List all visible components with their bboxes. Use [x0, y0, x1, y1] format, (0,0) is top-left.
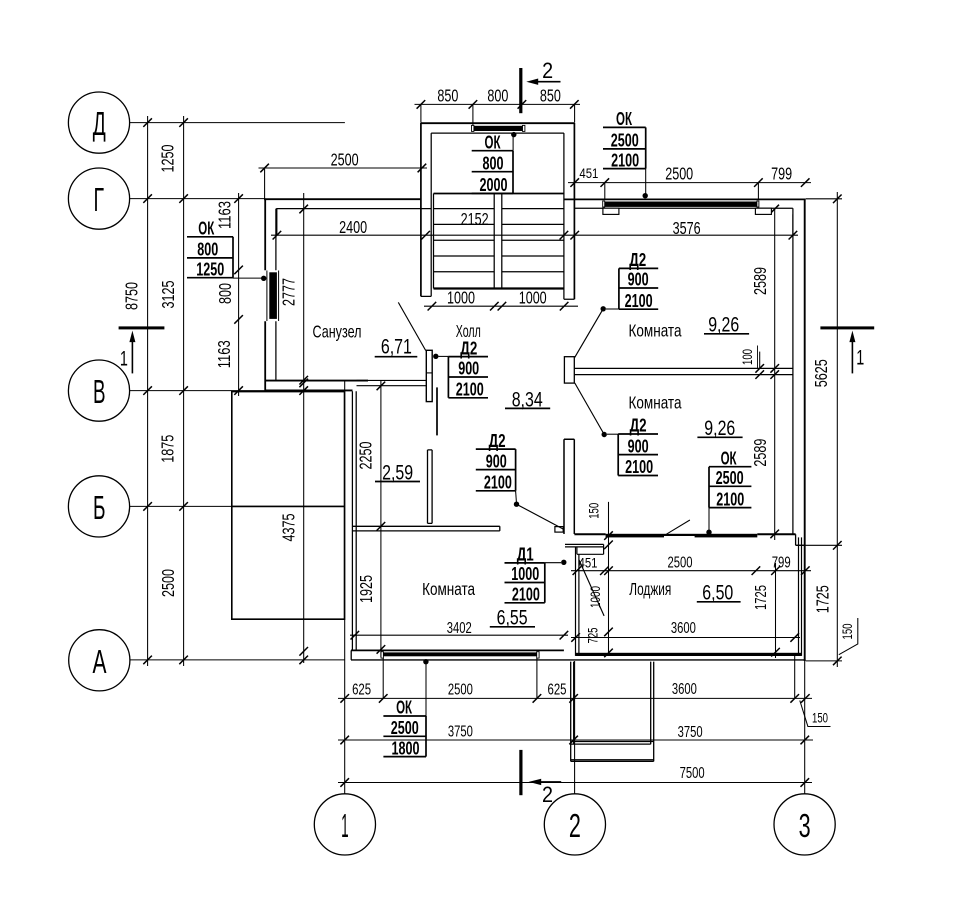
svg-text:Холл: Холл	[456, 321, 481, 341]
ticks top dims	[417, 100, 426, 109]
ticks bottom row 3	[340, 778, 349, 787]
section mark 1 right	[820, 326, 874, 373]
wall bottom room floor (axis А)	[351, 649, 564, 651]
area 9,26 room1	[704, 313, 749, 337]
svg-text:2500: 2500	[448, 682, 473, 699]
dimension chain 8750	[147, 116, 149, 666]
wall closet/room left	[352, 391, 356, 650]
svg-text:ОК: ОК	[616, 109, 633, 129]
svg-text:3600: 3600	[672, 681, 697, 698]
dimension chain 5625/1725 right	[836, 192, 838, 667]
axis circle 3	[774, 794, 835, 855]
svg-text:900: 900	[486, 451, 507, 471]
svg-text:Санузел: Санузел	[313, 321, 362, 341]
stair treads left flight	[434, 209, 495, 272]
svg-text:2: 2	[569, 807, 581, 844]
partition closet/room bottom	[352, 526, 499, 531]
ticks on axis lines	[143, 118, 152, 127]
loggia parapet right	[799, 537, 802, 656]
svg-text:3125: 3125	[158, 281, 178, 309]
svg-text:799: 799	[771, 164, 792, 184]
svg-text:150: 150	[812, 710, 828, 725]
svg-text:150: 150	[840, 624, 855, 640]
svg-text:850: 850	[540, 85, 561, 105]
svg-text:4375: 4375	[279, 514, 299, 542]
dim text 150 loggia right leader	[839, 618, 858, 655]
svg-text:ОК: ОК	[721, 448, 738, 468]
wall right outer (axis 3)	[804, 199, 806, 661]
svg-text:Д: Д	[93, 105, 106, 142]
svg-text:2589: 2589	[750, 267, 770, 295]
svg-text:1725: 1725	[753, 585, 770, 610]
axis circle Г	[68, 168, 129, 229]
tag ОК 800/2000 stair window	[472, 132, 517, 195]
loggia bottom wall	[576, 653, 802, 656]
axis line 2 vertical segments	[574, 104, 576, 793]
wall left wing top (axis Г)	[264, 198, 421, 200]
section mark 2 top	[519, 58, 560, 113]
partition rooms 1/2 (100mm)	[574, 368, 793, 374]
svg-text:1800: 1800	[392, 738, 420, 758]
svg-text:2250: 2250	[355, 441, 375, 469]
stair tower right wall	[573, 123, 575, 299]
svg-text:900: 900	[458, 359, 479, 379]
svg-text:3750: 3750	[678, 724, 703, 741]
stair bottom edge	[434, 287, 564, 289]
door swing room 2	[575, 383, 605, 435]
section mark 2 bottom	[519, 750, 561, 807]
dimension chain 2589/2589	[774, 209, 776, 540]
dimension line 100 partition	[759, 352, 761, 369]
extension lines top	[265, 104, 793, 235]
ticks loggia row	[573, 566, 582, 575]
dimension line 7500 bottom	[338, 782, 812, 784]
lower balcony outline	[571, 662, 654, 762]
axis line А	[130, 659, 345, 661]
svg-text:2: 2	[542, 782, 553, 807]
svg-text:150: 150	[586, 503, 601, 519]
dimension line 3750/3750 bottom	[338, 739, 813, 741]
dimension line 625/2500/625/3600 bottom	[338, 697, 812, 699]
svg-text:8750: 8750	[122, 282, 142, 310]
svg-text:2500: 2500	[158, 569, 178, 597]
stair treads right flight	[502, 209, 564, 272]
svg-text:1875: 1875	[158, 435, 178, 463]
dimension line 1000/1000 stairs	[424, 305, 578, 307]
svg-text:1: 1	[856, 346, 864, 369]
svg-text:Д2: Д2	[630, 416, 647, 436]
dimension chain 2777/4375	[303, 193, 305, 663]
svg-text:3402: 3402	[447, 620, 472, 637]
dimension line 3402	[350, 634, 568, 636]
svg-text:2500: 2500	[716, 468, 744, 488]
axis line 3 vertical	[804, 661, 806, 794]
wall right wing top (axis Г)	[564, 198, 806, 200]
svg-text:3: 3	[799, 807, 811, 844]
svg-text:800: 800	[197, 240, 218, 260]
window jamb niches top wall	[603, 208, 619, 214]
svg-text:2777: 2777	[279, 278, 299, 306]
tag ОК 800/1250 left window	[187, 219, 266, 281]
door swing bottom room	[517, 504, 564, 529]
svg-text:2100: 2100	[625, 291, 653, 311]
svg-text:800: 800	[215, 283, 235, 304]
area 6,55	[490, 606, 535, 630]
axis circle 2	[544, 794, 605, 855]
wall left wing outer left	[264, 198, 266, 391]
wall stub closet right	[428, 450, 433, 524]
svg-text:2100: 2100	[484, 473, 512, 493]
svg-text:2100: 2100	[456, 380, 484, 400]
svg-text:Д1: Д1	[517, 545, 534, 565]
ticks chain 2589	[770, 205, 779, 214]
extension lines bottom	[383, 656, 795, 699]
svg-text:1000: 1000	[447, 287, 475, 307]
ticks chain 1163/800/1163	[234, 266, 243, 275]
svg-text:2100: 2100	[512, 585, 540, 605]
wall stub hall	[436, 387, 438, 435]
svg-text:1925: 1925	[356, 575, 376, 603]
balcony door swing room2	[666, 520, 690, 534]
svg-text:451: 451	[579, 166, 598, 181]
loggia left jamb	[565, 544, 604, 554]
door leaf Санузел	[398, 302, 432, 401]
svg-text:2000: 2000	[480, 175, 508, 195]
dimension line 2500 top-left	[259, 167, 428, 169]
axis line Г	[130, 198, 265, 200]
svg-text:850: 850	[437, 85, 458, 105]
stair stringers	[434, 194, 502, 289]
ticks 1725 loggia	[771, 566, 780, 575]
svg-text:2100: 2100	[611, 150, 639, 170]
loggia parapet left	[576, 547, 579, 656]
ticks dim 100	[755, 364, 764, 373]
svg-text:2100: 2100	[716, 489, 744, 509]
dimension chain 1163/800/1163	[238, 193, 240, 396]
svg-text:ОК: ОК	[198, 219, 215, 239]
ticks chain 5625/1725	[833, 195, 842, 204]
dimension chain 1250/3125/1875/2500	[183, 116, 185, 666]
svg-text:В: В	[93, 373, 106, 410]
window ОК 2500x2100 top	[603, 201, 759, 207]
svg-text:900: 900	[628, 270, 649, 290]
door threshold Д2 hall	[357, 380, 427, 385]
extension lines right chain	[796, 199, 842, 661]
svg-text:Д2: Д2	[489, 431, 506, 451]
area 6,50	[697, 581, 741, 605]
underline 100	[757, 346, 759, 369]
loggia top wall / window ОК 2500x2100	[574, 534, 805, 546]
wall Санузел bottom (thick)	[265, 380, 368, 382]
stair landing edge	[434, 193, 564, 195]
dimension line 3600 loggia	[571, 637, 800, 639]
section mark 1 left	[119, 326, 165, 373]
svg-text:Комната: Комната	[629, 393, 682, 413]
svg-text:2500: 2500	[331, 149, 359, 169]
dimension line 451/2500/799 top-right	[568, 182, 811, 184]
tag ОК 2500/2100 top-right window	[603, 109, 648, 198]
tag ОК 2500/1800 bottom window	[383, 659, 428, 758]
svg-text:1: 1	[341, 807, 349, 844]
lower floor outline left	[232, 392, 345, 620]
dimension line 850/800/850 top	[415, 103, 581, 105]
svg-text:725: 725	[586, 628, 601, 644]
svg-text:1: 1	[120, 347, 128, 370]
svg-text:800: 800	[487, 85, 508, 105]
ticks bottom row 1	[340, 694, 349, 703]
svg-text:3750: 3750	[448, 724, 473, 741]
axis circle Б	[68, 476, 129, 537]
dim text 150 bottom-right leader	[800, 701, 831, 727]
door swing room 1	[575, 309, 604, 358]
tag Д2 900/2100 hall	[433, 338, 488, 399]
wall axis2 (hall/room2)	[564, 439, 574, 534]
svg-text:Д2: Д2	[460, 338, 477, 358]
svg-text:ОК: ОК	[485, 132, 502, 152]
svg-text:Комната: Комната	[422, 579, 475, 599]
dimension line 2400/2152/3576	[271, 234, 798, 236]
svg-text:Лоджия: Лоджия	[629, 579, 671, 599]
window ОК 2500x1800 bottom	[381, 652, 539, 658]
svg-text:6,55: 6,55	[497, 606, 528, 630]
axis line Д	[130, 122, 345, 124]
svg-text:2589: 2589	[750, 439, 770, 467]
svg-text:6,50: 6,50	[702, 581, 733, 605]
svg-text:ОК: ОК	[396, 698, 413, 718]
ticks 3600 loggia	[571, 633, 580, 642]
svg-text:800: 800	[483, 153, 504, 173]
svg-text:1725: 1725	[813, 585, 833, 613]
svg-text:2152: 2152	[461, 209, 489, 229]
tag Д2 900/2100 room 1	[601, 250, 659, 311]
svg-text:Г: Г	[94, 181, 105, 218]
svg-text:2500: 2500	[665, 164, 693, 184]
area 6,71	[375, 335, 418, 359]
svg-text:6,71: 6,71	[381, 335, 412, 359]
stair tower top wall	[421, 122, 575, 124]
svg-text:2500: 2500	[668, 554, 693, 571]
svg-text:625: 625	[352, 682, 371, 699]
ticks bottom row 2	[340, 736, 349, 745]
svg-text:2500: 2500	[611, 131, 639, 151]
window ОК 800x2000 stair	[472, 125, 525, 131]
dimension chain 2250/1925	[380, 381, 382, 658]
area 8,34	[505, 387, 550, 411]
area 2,59 closet	[375, 460, 420, 484]
svg-text:2100: 2100	[625, 457, 653, 477]
tag Д2 900/2100 bottom room	[476, 431, 519, 507]
window ОК 800x1250 in left wall	[267, 271, 279, 322]
svg-text:1250: 1250	[158, 144, 178, 172]
svg-text:900: 900	[628, 436, 649, 456]
axis line 1 vertical	[344, 381, 346, 794]
svg-text:1000: 1000	[519, 287, 547, 307]
axis line В	[130, 390, 345, 392]
door jamb cap bottom room	[555, 527, 563, 533]
svg-text:1163: 1163	[214, 340, 234, 368]
dimension line 451/2500/799 loggia	[571, 570, 811, 572]
axis circle В	[68, 360, 129, 421]
svg-text:1000: 1000	[511, 564, 539, 584]
svg-text:100: 100	[740, 349, 755, 365]
tag ОК 2500/2100 loggia window	[706, 448, 751, 535]
svg-text:Комната: Комната	[629, 320, 682, 340]
svg-text:451: 451	[579, 556, 598, 571]
ticks chain 2777/4375	[299, 205, 308, 214]
svg-text:3576: 3576	[673, 218, 701, 238]
ticks 150/1000/725	[604, 531, 613, 540]
svg-text:1163: 1163	[214, 201, 234, 229]
svg-text:1250: 1250	[196, 259, 224, 279]
tag Д1 1000/2100 loggia door	[505, 545, 567, 605]
stair tower left wall	[420, 123, 422, 296]
axis circle Д	[68, 92, 129, 153]
svg-text:799: 799	[772, 554, 791, 571]
partition end cap	[564, 357, 574, 383]
svg-text:Д2: Д2	[629, 250, 646, 270]
svg-text:7500: 7500	[680, 765, 705, 782]
tag Д2 900/2100 room 2	[602, 416, 659, 478]
svg-text:Б: Б	[93, 489, 106, 526]
svg-text:2400: 2400	[339, 217, 367, 237]
dimension line 150/1000/725 loggia left	[608, 502, 610, 656]
dimension chain 1725 loggia	[775, 563, 777, 658]
ticks chain 2250/1925	[377, 382, 386, 391]
svg-text:2: 2	[542, 58, 553, 83]
svg-text:2500: 2500	[391, 718, 419, 738]
area 9,26 room2	[697, 416, 742, 440]
axis circle 1	[314, 794, 375, 855]
axis circle А	[69, 630, 130, 691]
svg-text:5625: 5625	[811, 359, 831, 387]
svg-text:625: 625	[548, 682, 567, 699]
svg-text:3600: 3600	[671, 620, 696, 637]
svg-text:А: А	[93, 643, 107, 680]
door swing Д1 loggia	[579, 560, 604, 616]
axis line Б	[130, 505, 345, 507]
